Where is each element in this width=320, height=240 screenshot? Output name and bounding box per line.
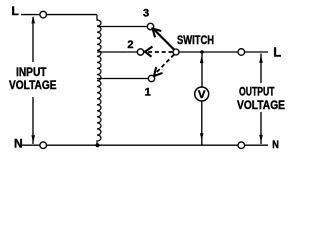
svg-text:N: N bbox=[14, 137, 23, 151]
arrowhead: output voltage down bbox=[259, 135, 263, 142]
wire: output voltage measure line (upper) bbox=[260, 54, 262, 84]
terminal circle: output L bbox=[238, 49, 245, 56]
arrowhead: to contact 1 bbox=[154, 68, 162, 76]
svg-text:3: 3 bbox=[143, 8, 149, 20]
switch contact 1 bbox=[148, 75, 154, 81]
wire: tap 3 bbox=[97, 26, 147, 28]
voltmeter V1 bbox=[195, 87, 209, 101]
arrowhead: output voltage up bbox=[259, 55, 263, 62]
wire: voltmeter upper lead bbox=[201, 52, 203, 87]
terminal circle: input N bbox=[40, 142, 47, 149]
wire: output voltage measure line (lower) bbox=[260, 112, 262, 144]
junction: voltmeter tap bbox=[200, 50, 203, 53]
wire: input top rail bbox=[21, 14, 97, 16]
junction: winding to bottom rail bbox=[96, 143, 100, 147]
arrowhead: voltmeter up bbox=[200, 56, 204, 64]
switch contact 3 bbox=[147, 23, 153, 29]
svg-text:L: L bbox=[12, 4, 19, 18]
switch pole bbox=[173, 49, 179, 55]
svg-text:INPUT: INPUT bbox=[16, 65, 47, 79]
wire: input voltage measure line (upper) bbox=[32, 17, 34, 62]
switch contact 2 bbox=[137, 49, 143, 55]
wire: output top rail bbox=[179, 51, 268, 53]
wire: tap 2 bbox=[97, 51, 137, 53]
arrowhead: to contact 2 bbox=[145, 47, 152, 56]
wire: input voltage measure line (lower) bbox=[32, 97, 34, 144]
wire: voltmeter lower lead bbox=[201, 101, 203, 145]
dashed arrow to contact 1 bbox=[156, 55, 174, 73]
dashed arrow to contact 2 bbox=[147, 51, 173, 53]
svg-text:VOLTAGE: VOLTAGE bbox=[237, 98, 285, 112]
arrowhead: input voltage down bbox=[31, 135, 35, 143]
switch arm (solid line to contact 3) bbox=[154, 29, 175, 50]
svg-text:2: 2 bbox=[127, 39, 133, 51]
svg-text:SWITCH: SWITCH bbox=[177, 33, 214, 47]
arrowhead: voltmeter down bbox=[200, 133, 204, 141]
svg-text:L: L bbox=[273, 45, 281, 60]
arrowhead: input voltage up bbox=[31, 16, 35, 24]
terminal circle: input L bbox=[40, 11, 47, 18]
svg-text:1: 1 bbox=[145, 86, 151, 98]
wire: bottom rail bbox=[22, 144, 268, 146]
autotransformer winding T1 bbox=[97, 15, 101, 146]
svg-text:V: V bbox=[198, 89, 206, 101]
terminal circle: output N bbox=[238, 142, 245, 149]
wire: tap 1 bbox=[97, 78, 148, 80]
svg-text:OUTPUT: OUTPUT bbox=[239, 85, 275, 99]
svg-text:VOLTAGE: VOLTAGE bbox=[9, 78, 57, 92]
arrowhead: switch arm bbox=[153, 29, 161, 37]
svg-text:N: N bbox=[272, 139, 279, 151]
